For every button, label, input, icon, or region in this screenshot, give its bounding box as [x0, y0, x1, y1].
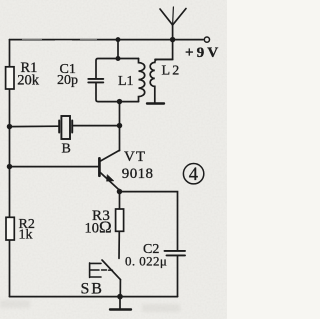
wire crystal to collector node — [72, 125, 119, 127]
resistor R3 — [116, 209, 124, 231]
node crystal left rail — [8, 125, 12, 129]
svg-text:10Ω: 10Ω — [85, 218, 112, 237]
svg-text:9018: 9018 — [122, 166, 154, 182]
inductor L1 — [139, 59, 145, 102]
svg-text:20p: 20p — [57, 73, 78, 88]
svg-text:4: 4 — [189, 165, 198, 185]
svg-text:B: B — [62, 142, 71, 157]
svg-text:VT: VT — [124, 149, 146, 165]
capacitor C1 — [88, 79, 103, 83]
node base left rail — [8, 165, 12, 169]
svg-text:1k: 1k — [19, 228, 33, 243]
transistor VT — [99, 150, 119, 190]
inductor L2 — [150, 59, 172, 102]
svg-text:SB: SB — [81, 280, 104, 297]
wire switch to bottom rail — [119, 280, 121, 297]
scan fade on top rail — [22, 39, 97, 40]
node crystal collector junction — [118, 124, 122, 128]
antenna — [160, 7, 186, 40]
wire left rail — [9, 40, 11, 297]
wire emitter down — [119, 190, 121, 210]
wire top +9V rail — [10, 39, 204, 41]
wire C2 to bottom rail — [177, 255, 179, 296]
capacitor C2 — [165, 251, 186, 256]
resistor R2 — [6, 217, 14, 240]
wire emitter to C2 branch — [120, 192, 178, 250]
switch SB — [90, 260, 121, 280]
node emitter junction — [118, 190, 122, 194]
wire R3 to switch — [118, 231, 120, 258]
wire tank bottom to collector — [119, 102, 121, 151]
scan smudges — [0, 300, 180, 312]
ground main — [110, 297, 131, 310]
svg-text:+9V: +9V — [185, 44, 221, 61]
wire base branch — [10, 166, 99, 168]
node tank top — [116, 57, 119, 60]
wire antenna to L2 top — [155, 40, 173, 60]
svg-text:20k: 20k — [17, 72, 40, 88]
figure number circle 4 — [183, 164, 203, 184]
svg-text:L1: L1 — [118, 74, 134, 89]
resistor R1 — [6, 67, 14, 89]
crystal B — [59, 116, 72, 139]
node bottom rail junction — [118, 295, 122, 299]
wire rail to tank top — [117, 40, 119, 59]
svg-text:L2: L2 — [162, 64, 182, 79]
svg-text:0. 022μ: 0. 022μ — [125, 254, 167, 269]
node tank feed rail junction — [116, 38, 119, 41]
wire tank loop — [96, 59, 139, 102]
node antenna rail junction — [171, 38, 175, 42]
wire bottom rail — [10, 296, 178, 298]
ground L2 — [147, 102, 164, 104]
node tank bottom — [118, 100, 122, 104]
terminal +9V — [204, 37, 209, 42]
wire crystal branch left — [10, 125, 60, 127]
